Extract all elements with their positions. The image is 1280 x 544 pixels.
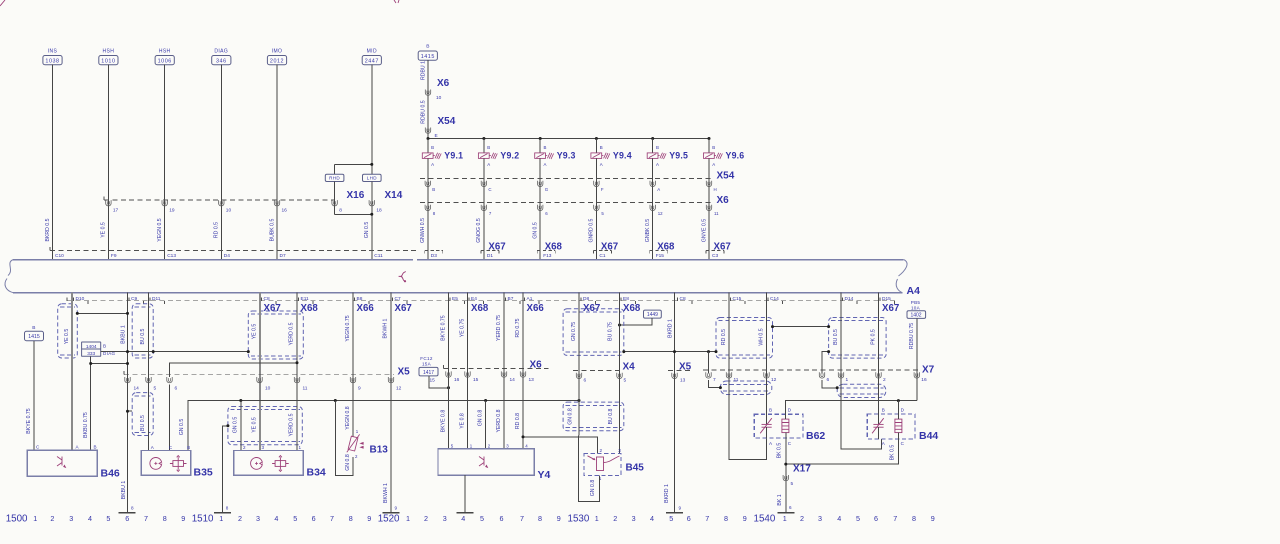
svg-text:Y9.6: Y9.6 (726, 151, 745, 161)
connector X7 pin 11 (726, 372, 731, 378)
bus pin D10 (73, 298, 75, 301)
svg-text:YERD 0.8: YERD 0.8 (496, 409, 502, 432)
wire MID to variant junction (371, 65, 373, 175)
bus pin F15 bracket (650, 249, 668, 251)
wire B44 coil top (878, 427, 880, 439)
svg-text:3: 3 (618, 448, 621, 453)
connector X14 pin 18 (371, 182, 373, 260)
svg-text:BKRD 1: BKRD 1 (664, 484, 670, 503)
svg-text:C1: C1 (599, 253, 605, 259)
bus pin C14 (767, 298, 769, 301)
svg-text:6: 6 (175, 385, 178, 391)
wire RD 0.5 C15 to B62 pin A (729, 293, 767, 460)
svg-text:D4: D4 (224, 253, 230, 259)
svg-text:B44: B44 (919, 430, 938, 442)
connector row X5 dashed (124, 374, 394, 376)
svg-text:X67: X67 (714, 242, 731, 253)
svg-text:3: 3 (818, 514, 822, 523)
svg-text:8: 8 (912, 514, 916, 523)
svg-text:BKBU 0.75: BKBU 0.75 (83, 412, 89, 438)
bus pin D1 bracket (481, 249, 499, 251)
svg-text:12: 12 (396, 385, 402, 391)
svg-text:A: A (431, 162, 434, 167)
svg-text:BKYE 0.8: BKYE 0.8 (441, 410, 447, 433)
svg-text:16: 16 (454, 377, 460, 383)
svg-text:4: 4 (837, 514, 841, 523)
svg-text:8: 8 (163, 514, 167, 523)
wire from fuse 1417 to BKYE 0.8 (429, 376, 449, 388)
svg-text:D8: D8 (583, 296, 589, 302)
svg-text:17: 17 (113, 208, 119, 214)
connector X7 pin 16 (914, 372, 919, 378)
wire GNYE 0.5 Y9.6 to bus pin C3 (708, 158, 710, 259)
stray plot mark top-left (0, 0, 5, 6)
svg-text:FC12: FC12 (420, 356, 433, 361)
wire GN 0.5 merge to bus pin C11 (335, 213, 372, 215)
svg-text:1: 1 (299, 445, 302, 450)
svg-text:14: 14 (510, 377, 516, 383)
connector X7 pin 7 (706, 372, 711, 378)
shielded pair GN/BU 0.75 (563, 309, 624, 356)
svg-text:GNRD 0.5: GNRD 0.5 (589, 218, 595, 242)
svg-text:BU 0.5: BU 0.5 (140, 328, 146, 344)
solenoid valve Y9.6 (708, 139, 710, 153)
svg-text:8: 8 (131, 505, 134, 510)
svg-text:16: 16 (282, 208, 288, 214)
shield stub lower BU box (128, 410, 133, 412)
harness branch mark (399, 272, 406, 281)
wire PK 0.5 D15 to B44 pin B (878, 293, 880, 425)
svg-text:11: 11 (714, 211, 719, 216)
svg-text:B46: B46 (101, 467, 120, 479)
shielded cable YE 0.5 (B46 branch) (58, 304, 78, 358)
svg-text:YE 0.5: YE 0.5 (251, 417, 257, 433)
wire GN 0.75 D8 to sensor ground feed (578, 293, 580, 401)
svg-text:9: 9 (395, 505, 398, 510)
shield jog X7 pin6 to right pill (822, 380, 837, 388)
svg-text:HSH: HSH (159, 48, 171, 54)
svg-text:BU 0.5: BU 0.5 (833, 329, 839, 345)
svg-text:BKRD 0.5: BKRD 0.5 (45, 218, 51, 241)
connector X7 pin 12 (764, 372, 769, 378)
svg-text:1: 1 (595, 514, 599, 523)
connector row X5 right dashed (668, 369, 690, 371)
connector X7 pin 1 (838, 372, 843, 378)
svg-text:A: A (657, 187, 660, 192)
wire BU 0.75 E8 to B45 pin 3 (619, 293, 621, 454)
svg-text:BU 0.8: BU 0.8 (608, 408, 614, 424)
svg-text:BU 0.75: BU 0.75 (607, 322, 613, 341)
wire YERD 0.75 to Y4 pin 3 (503, 293, 505, 449)
svg-text:YEGN 0.5: YEGN 0.5 (157, 218, 163, 241)
svg-text:WH 0.5: WH 0.5 (758, 328, 764, 345)
svg-text:8: 8 (724, 514, 728, 523)
svg-text:3: 3 (262, 445, 265, 450)
svg-text:5: 5 (669, 514, 673, 523)
svg-text:X67: X67 (395, 303, 412, 314)
svg-text:X54: X54 (717, 170, 735, 181)
wire YE 0.5 C8 to B34 pin 3 (259, 293, 261, 451)
svg-text:GNOG 0.5: GNOG 0.5 (476, 218, 482, 243)
svg-text:B: B (426, 44, 429, 50)
svg-text:YE 0.8: YE 0.8 (460, 413, 466, 429)
svg-text:X66: X66 (527, 303, 545, 314)
svg-text:X67: X67 (264, 303, 281, 314)
connector row X6 dashed (420, 201, 712, 203)
wire from 1449 to BU 0.75 (620, 318, 652, 325)
svg-text:B: B (487, 145, 490, 150)
bus pin C1 bracket (593, 249, 611, 251)
connector bracket row above bus (50, 249, 417, 251)
svg-text:Y9.2: Y9.2 (500, 151, 519, 161)
connector X16 pin 8 (334, 182, 336, 215)
solenoid supply rail (428, 138, 709, 140)
svg-text:YERD 0.5: YERD 0.5 (289, 322, 295, 345)
svg-text:GN 0.8: GN 0.8 (590, 480, 596, 497)
svg-text:X67: X67 (601, 242, 618, 253)
svg-text:B: B (187, 445, 190, 450)
svg-text:MID: MID (367, 48, 377, 54)
svg-text:INS: INS (48, 48, 58, 54)
svg-text:BKRD 1: BKRD 1 (667, 319, 673, 338)
svg-text:A: A (712, 162, 715, 167)
svg-text:B: B (94, 445, 97, 450)
bus pin E4 (468, 298, 470, 301)
svg-text:YERD 0.75: YERD 0.75 (496, 315, 502, 341)
svg-text:9: 9 (743, 514, 747, 523)
bus pin B8 (354, 298, 356, 301)
svg-text:6: 6 (584, 378, 587, 384)
shielded cable BU 0.5 lower (132, 393, 153, 436)
ground link BKBU0.75 to BKBU1 (91, 363, 128, 365)
svg-text:5: 5 (106, 514, 110, 523)
svg-text:C13: C13 (167, 253, 176, 259)
svg-text:BKBU 1: BKBU 1 (121, 481, 127, 500)
svg-text:GN 0.5: GN 0.5 (533, 222, 539, 239)
svg-text:B: B (600, 145, 603, 150)
connector row X54 dashed (420, 177, 712, 179)
bus pin C9 (128, 298, 130, 301)
svg-text:D11: D11 (152, 296, 161, 302)
svg-text:GN 0.5: GN 0.5 (364, 222, 370, 239)
bus pin C3 bracket (706, 249, 724, 251)
svg-text:A4: A4 (907, 285, 921, 297)
svg-text:X67: X67 (882, 303, 899, 314)
svg-text:16: 16 (921, 377, 927, 383)
svg-text:RDBU 0.75: RDBU 0.75 (909, 323, 915, 349)
svg-text:X5: X5 (679, 361, 692, 372)
stray plot mark top-center (394, 0, 399, 3)
wire RD 0.5 to bus pin D4 (220, 65, 222, 260)
svg-text:B: B (656, 145, 659, 150)
bus pin D11 (149, 298, 151, 301)
svg-text:3: 3 (443, 514, 447, 523)
ground wire from Y4 (464, 475, 466, 513)
svg-text:D10: D10 (76, 296, 85, 302)
svg-text:1530: 1530 (568, 514, 590, 525)
svg-text:3: 3 (632, 514, 636, 523)
svg-text:4: 4 (461, 514, 465, 523)
svg-text:X68: X68 (657, 242, 675, 253)
ground bar 1520 (383, 512, 400, 514)
bus pin A1 (524, 298, 526, 301)
svg-text:Y9.5: Y9.5 (669, 151, 688, 161)
svg-text:1: 1 (783, 514, 787, 523)
svg-text:5: 5 (856, 514, 860, 523)
wire GNRD 0.5 Y9.4 to bus pin C1 (595, 158, 597, 259)
svg-text:X66: X66 (357, 303, 375, 314)
bus right break curve (896, 260, 907, 293)
svg-text:YEGN 0.75: YEGN 0.75 (345, 315, 351, 341)
solenoid valve Y9.5 (652, 139, 654, 153)
bus pin E11 (298, 298, 300, 301)
heated lens B62 (754, 414, 803, 438)
svg-text:X5: X5 (398, 367, 411, 378)
svg-text:10A: 10A (911, 305, 921, 310)
pointer 1449 (644, 310, 662, 318)
svg-text:6: 6 (789, 505, 792, 510)
connector X7 pin 6 (819, 372, 824, 378)
wire RDBU 1 from 1415 (427, 60, 429, 138)
connector row X6 dashed (443, 368, 548, 370)
svg-text:E8: E8 (623, 296, 629, 302)
svg-text:15A: 15A (422, 362, 432, 367)
bus pin D3 bracket (425, 249, 443, 251)
svg-text:1: 1 (33, 514, 37, 523)
svg-text:9: 9 (557, 514, 561, 523)
svg-text:12: 12 (771, 377, 777, 383)
svg-text:B: B (712, 145, 715, 150)
wire WH 0.5 C14 to B62 pin B (766, 293, 768, 425)
svg-text:GN 0.5: GN 0.5 (232, 417, 238, 434)
svg-text:B34: B34 (307, 467, 326, 479)
svg-text:3: 3 (69, 514, 73, 523)
shielded pair RD/WH 0.5 (716, 318, 773, 359)
harness bus A4 bottom line (13, 292, 902, 294)
svg-text:B: B (432, 187, 435, 192)
svg-text:F15: F15 (656, 253, 665, 259)
ground bar 1530-5 (666, 512, 683, 514)
connector X7 pin 2 (876, 372, 881, 378)
svg-text:RD 0.75: RD 0.75 (515, 318, 521, 337)
svg-text:1415: 1415 (28, 334, 40, 340)
svg-text:10: 10 (436, 95, 442, 101)
svg-text:8: 8 (339, 208, 342, 214)
svg-text:E5: E5 (452, 296, 458, 302)
svg-text:10: 10 (226, 208, 232, 214)
pointer 1404 333 DIAG (82, 342, 101, 356)
wire BKYE 0.75 to Y4 pin 5 (448, 293, 450, 449)
svg-text:HSH: HSH (103, 48, 115, 54)
svg-text:2: 2 (600, 448, 603, 453)
svg-text:X68: X68 (545, 242, 563, 253)
shielded triple GN/YE/YERD lower (228, 407, 302, 445)
wire GNOG 0.5 Y9.2 to bus pin D1 (483, 158, 485, 259)
svg-text:GN 0.8: GN 0.8 (345, 454, 351, 471)
wire YERD 0.5 E11 to B34 (296, 293, 298, 451)
wire BKBU 0.75 to B46 pin B (90, 356, 92, 450)
bus pin C8 (261, 298, 263, 301)
shield drop to X7 pin 7 (708, 352, 710, 374)
solenoid valve Y9.4 (595, 139, 597, 153)
svg-text:12: 12 (658, 211, 663, 216)
wire YEGN 0.5 to bus pin C13 (164, 65, 166, 260)
svg-text:8: 8 (538, 514, 542, 523)
aerial Y4 (438, 449, 534, 475)
svg-text:Y9.3: Y9.3 (557, 151, 576, 161)
svg-text:YE 0.5: YE 0.5 (101, 222, 107, 238)
svg-text:GN 0.8: GN 0.8 (478, 410, 484, 427)
svg-text:2: 2 (50, 514, 54, 523)
svg-text:X6: X6 (530, 359, 543, 370)
buzzer B34 (234, 451, 303, 476)
heated lens B44 (867, 414, 915, 439)
shield wire DIAG to YE/YERD pair (101, 351, 249, 353)
svg-text:X68: X68 (301, 303, 319, 314)
svg-text:1540: 1540 (754, 514, 776, 525)
svg-text:1: 1 (219, 514, 223, 523)
svg-text:X16: X16 (347, 190, 365, 201)
solenoid valve Y9.2 (483, 139, 485, 153)
svg-text:8: 8 (349, 514, 353, 523)
svg-text:333: 333 (87, 351, 95, 357)
ground bar 1500-6 (119, 512, 136, 514)
svg-text:1520: 1520 (378, 514, 400, 525)
svg-text:6: 6 (125, 514, 129, 523)
svg-text:7: 7 (330, 514, 334, 523)
wire GN 0.5 to B34 pin 2 (240, 401, 242, 451)
svg-text:D7: D7 (280, 253, 286, 259)
svg-text:8: 8 (226, 505, 229, 510)
svg-text:10: 10 (265, 385, 271, 391)
svg-text:B: B (32, 325, 35, 331)
svg-text:1: 1 (406, 514, 410, 523)
shielded pair YE/YERD upper (248, 311, 303, 359)
svg-text:D1: D1 (487, 253, 493, 259)
svg-text:13: 13 (680, 378, 686, 384)
wire GN 0.8 to Y4 pin 2 (485, 401, 487, 449)
bus pin C8 (677, 298, 679, 301)
buzzer B35 (141, 451, 190, 476)
svg-text:A: A (487, 162, 490, 167)
svg-text:7: 7 (893, 514, 897, 523)
wire BKYE 0.75 to B46 pin C (33, 341, 35, 451)
svg-text:5: 5 (293, 514, 297, 523)
svg-text:B: B (431, 145, 434, 150)
svg-text:11: 11 (303, 385, 308, 391)
svg-text:C: C (488, 187, 491, 192)
svg-text:2: 2 (238, 514, 242, 523)
wire GNBK 0.5 Y9.5 to bus pin F15 (652, 158, 654, 259)
svg-text:IMO: IMO (272, 48, 283, 54)
svg-text:Y9.1: Y9.1 (444, 151, 463, 161)
wire BKRD 1 C8 to ground track 1530-5 (674, 293, 676, 513)
shield wire B34 pair to ground track 1510-1 (222, 426, 228, 513)
svg-text:B: B (882, 408, 885, 413)
svg-text:BKBU 1: BKBU 1 (120, 325, 126, 344)
svg-text:RDBU 0.5: RDBU 0.5 (421, 100, 427, 123)
svg-text:9: 9 (358, 385, 361, 391)
junction Y9.5 on rail (651, 137, 654, 140)
svg-text:9: 9 (367, 514, 371, 523)
svg-text:C11: C11 (374, 253, 383, 259)
svg-text:18: 18 (376, 208, 382, 214)
shielded pair GN/BU 0.8 (563, 402, 624, 431)
temperature sensor B13 (347, 434, 364, 452)
svg-text:A: A (656, 162, 659, 167)
svg-text:3: 3 (256, 514, 260, 523)
svg-text:LHD: LHD (367, 176, 377, 181)
svg-text:5: 5 (624, 378, 627, 384)
svg-text:B8: B8 (357, 296, 363, 302)
svg-text:X54: X54 (438, 116, 456, 127)
wire RDBU 0.75 from fuse 1402 (916, 318, 918, 400)
solenoid valve Y9.3 (539, 139, 541, 153)
svg-text:B45: B45 (626, 463, 645, 474)
svg-text:YERD 0.5: YERD 0.5 (289, 413, 295, 436)
svg-text:X68: X68 (623, 303, 641, 314)
variant branch wire (335, 163, 372, 165)
svg-text:9: 9 (931, 514, 935, 523)
wire BKWH 1 C7 to ground track 1520 (390, 293, 392, 513)
svg-text:6: 6 (687, 514, 691, 523)
svg-text:Y9.4: Y9.4 (613, 151, 632, 161)
link B35 pin C to YERD wire (170, 363, 298, 377)
svg-text:1038: 1038 (45, 58, 59, 64)
svg-text:2: 2 (883, 377, 886, 383)
microphone B45 (584, 454, 621, 476)
wire GN 0.8 branch to B13 pin 2 (335, 401, 353, 476)
svg-text:BKYE 0.75: BKYE 0.75 (441, 315, 447, 340)
svg-text:B: B (544, 145, 547, 150)
svg-text:YE 0.5: YE 0.5 (64, 329, 70, 345)
svg-text:GN 0.8: GN 0.8 (567, 408, 573, 425)
svg-text:7: 7 (144, 514, 148, 523)
svg-text:RD 0.5: RD 0.5 (214, 222, 220, 238)
bus pin C15 (730, 298, 732, 301)
svg-text:RHD: RHD (329, 176, 340, 181)
wire BUBK 0.5 to bus pin D7 (276, 65, 278, 260)
svg-text:4: 4 (274, 514, 278, 523)
branch RD 0.8 to B45 pin 2 (523, 437, 597, 454)
svg-text:6: 6 (827, 377, 830, 383)
wire GN 0.8 B45 pin 1 return (578, 401, 599, 502)
svg-text:346: 346 (216, 58, 227, 64)
svg-text:BKYE 0.75: BKYE 0.75 (26, 408, 32, 433)
shield sleeve right pill (837, 384, 886, 397)
ground bar 1510-1 (214, 512, 231, 514)
svg-text:RDBU 1: RDBU 1 (421, 61, 427, 80)
bus pin D15 (879, 298, 881, 301)
shield wire GN/BU pair to RD/WH pair (624, 351, 716, 353)
svg-text:BK 0.5: BK 0.5 (889, 445, 895, 461)
svg-text:2: 2 (243, 445, 246, 450)
svg-text:X68: X68 (471, 303, 489, 314)
svg-text:1010: 1010 (101, 58, 115, 64)
wire YE 0.5 to bus pin F9 (107, 65, 109, 260)
svg-text:YE 0.75: YE 0.75 (460, 319, 466, 338)
bus pin B7 (505, 298, 507, 301)
svg-text:9: 9 (679, 505, 682, 510)
option box LHD (363, 174, 382, 181)
svg-text:Y4: Y4 (538, 469, 551, 481)
svg-text:1006: 1006 (158, 58, 172, 64)
svg-text:1: 1 (846, 377, 849, 383)
svg-text:A1: A1 (527, 296, 533, 302)
svg-text:6: 6 (312, 514, 316, 523)
bus pin E8 (620, 298, 622, 301)
svg-text:C8: C8 (264, 296, 270, 302)
